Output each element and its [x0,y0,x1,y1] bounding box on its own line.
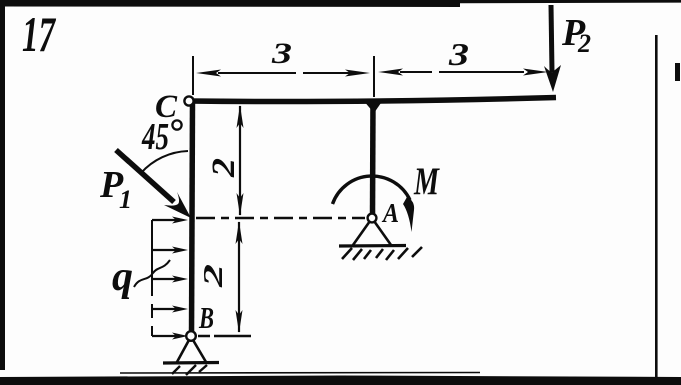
svg-text:3: 3 [271,37,292,70]
svg-text:q: q [112,254,133,300]
pin support at A triangle [353,221,391,245]
q arrow 3 [152,276,188,283]
label A [381,198,399,228]
45 degree arc [141,151,188,173]
border frame top [0,0,681,7]
label B [198,300,214,335]
distributed load q left boundary [151,220,153,336]
svg-text:45: 45 [141,116,169,158]
border frame left [0,0,5,370]
svg-text:1: 1 [119,185,132,214]
member C-B (left vertical bar) [192,100,193,338]
svg-text:2: 2 [206,158,242,178]
border frame right [655,35,680,378]
label 3 (left) [271,37,292,70]
node B circle [186,331,196,341]
vertical dimension 2 (lower) [236,221,243,333]
svg-text:3: 3 [448,36,469,72]
force P2 arrow [544,5,561,92]
label M [413,160,440,203]
svg-text:17: 17 [22,6,56,62]
problem number 17 [22,6,56,62]
member C-right (horizontal bar) [189,98,556,102]
moment M arc [333,176,415,232]
member A (middle vertical bar) [363,100,383,217]
dimension extension line at C [192,56,194,95]
force P1 arrow [116,150,191,218]
ground line at A [339,244,406,248]
hatching at B [172,365,207,375]
q arrow 2 [152,247,188,254]
hatching at A [342,247,422,260]
label q with leader [112,254,170,300]
label P1 [99,164,132,214]
pin support at B triangle [177,340,206,362]
dashed axis line from P1 point to A [196,217,365,219]
svg-text:2: 2 [198,264,228,289]
label 2 (lower, rotated) [198,264,228,289]
vertical dimension 2 (upper) [237,105,244,216]
label 3 (right) [448,36,469,72]
svg-text:M: M [413,160,440,203]
svg-text:2: 2 [577,29,591,58]
dimension line 3 (left span) [196,70,370,77]
border frame bottom [0,373,681,385]
svg-text:A: A [381,198,399,228]
q arrow 1 [152,217,188,224]
dimension extension line at middle [373,56,375,97]
node A circle [368,214,377,223]
ground line at B [163,361,219,365]
label C [155,89,178,125]
label 2 (upper, rotated) [206,158,242,178]
node C circle [184,96,193,105]
q arrow 5 [152,333,188,340]
label P2 [561,12,591,58]
dimension line 3 (right span) [378,69,548,76]
svg-text:B: B [198,300,214,335]
label 45deg [141,116,181,158]
q arrow 4 [152,306,188,313]
dimension reference line at B level [198,335,251,337]
